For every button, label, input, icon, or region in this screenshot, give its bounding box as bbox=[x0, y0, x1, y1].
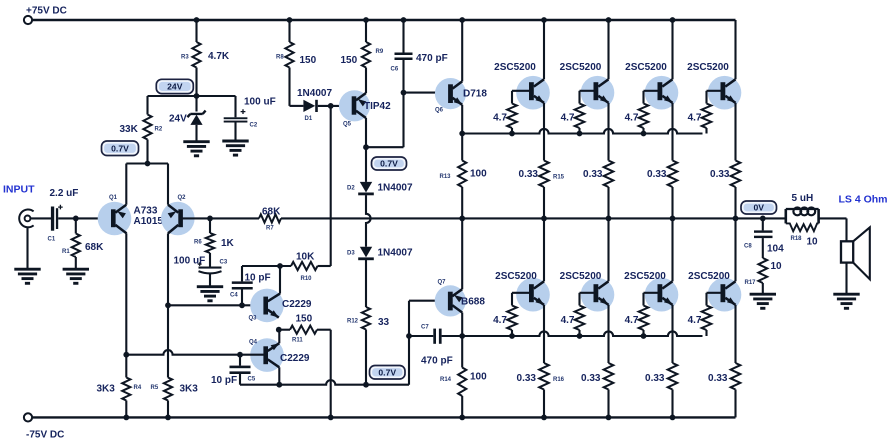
resistor R6 1K bbox=[209, 218, 211, 233]
svg-text:470 pF: 470 pF bbox=[416, 53, 448, 64]
ground below zener bbox=[183, 140, 209, 143]
resistor 4.7 base (lower bank cell 4) bbox=[705, 293, 707, 306]
junction Q3 Q4 emitters bbox=[276, 327, 282, 333]
svg-text:3K3: 3K3 bbox=[180, 384, 199, 395]
svg-text:R18: R18 bbox=[791, 236, 803, 242]
wire emitter drop + resistor 0.33 (upper cell 1) bbox=[543, 103, 545, 161]
wire Q5 collector to C6 branch bbox=[366, 146, 404, 148]
resistor R7 68K feedback bbox=[210, 217, 259, 219]
wire Q7 collector down to bus bbox=[461, 313, 463, 337]
wire collector Q_bot2 up to output line bbox=[607, 218, 609, 281]
capacitor C3 100 uF electrolytic bbox=[199, 267, 222, 269]
svg-text:Q4: Q4 bbox=[249, 340, 258, 346]
resistor R17 10 bbox=[758, 258, 767, 283]
resistor R3 4.7K bbox=[195, 20, 197, 42]
svg-text:24V: 24V bbox=[167, 82, 183, 92]
svg-text:100 uF: 100 uF bbox=[244, 97, 276, 108]
wire collector Q_bot4 up to output line bbox=[734, 218, 736, 281]
svg-text:1N4007: 1N4007 bbox=[378, 248, 413, 259]
wire collector Q_bot3 up to output line bbox=[671, 218, 673, 281]
terminal -75V DC bbox=[24, 413, 32, 421]
top +75V supply rail bbox=[33, 19, 736, 21]
svg-text:R1: R1 bbox=[62, 249, 70, 255]
ground below C3 bbox=[197, 285, 223, 288]
svg-text:68K: 68K bbox=[85, 242, 104, 253]
svg-text:2SC5200: 2SC5200 bbox=[625, 62, 667, 73]
junction lower cell 3 on -75V rail bbox=[670, 415, 676, 421]
svg-text:1N4007: 1N4007 bbox=[378, 183, 413, 194]
pill 0.7V bottom bbox=[370, 366, 406, 380]
wire Q2 emitter up bbox=[167, 164, 169, 205]
junction C7 left node bbox=[406, 333, 412, 339]
wire collector Q_bot1 up to output line bbox=[543, 218, 545, 281]
junction R5 on -75V rail bbox=[165, 415, 171, 421]
junction 4.7 on upper bus cell 1 bbox=[509, 131, 515, 137]
resistor 4.7 base (lower bank cell 1) bbox=[511, 293, 513, 306]
svg-text:C2229: C2229 bbox=[282, 299, 312, 310]
junction R1 tap bbox=[73, 216, 79, 222]
junction R12 bottom on node bbox=[363, 382, 369, 388]
resistor R8 150 bbox=[287, 17, 293, 23]
pill 0V bbox=[741, 201, 777, 214]
wire Q3 collector up to R10 node bbox=[279, 266, 281, 294]
wire emitter drop + resistor 0.33 (upper cell 3) bbox=[671, 103, 673, 161]
wire upper driver bus (hops emitter drops) bbox=[462, 129, 702, 134]
wire output line (R7 to inductor) bbox=[281, 217, 786, 219]
svg-text:100: 100 bbox=[470, 169, 487, 180]
wire lower driver bus (hops emitter drops) bbox=[462, 331, 702, 336]
svg-text:R17: R17 bbox=[745, 280, 757, 286]
junction R14 on -75V rail bbox=[459, 415, 465, 421]
svg-text:1K: 1K bbox=[221, 238, 235, 249]
resistor R14 100 bbox=[461, 336, 463, 368]
svg-text:33K: 33K bbox=[120, 124, 139, 135]
resistor 4.7 base (lower bank cell 3) bbox=[642, 293, 644, 306]
svg-text:Q1: Q1 bbox=[109, 195, 118, 201]
junction 24V node bbox=[194, 93, 200, 99]
svg-text:10K: 10K bbox=[296, 252, 315, 263]
svg-text:2SC5200: 2SC5200 bbox=[560, 271, 602, 282]
svg-text:0.7V: 0.7V bbox=[380, 159, 398, 169]
svg-text:0.33: 0.33 bbox=[583, 169, 603, 180]
svg-text:R12: R12 bbox=[347, 319, 359, 325]
svg-text:2.2 uF: 2.2 uF bbox=[50, 188, 79, 199]
junction upper cell 3 on output line bbox=[670, 216, 676, 222]
svg-text:68K: 68K bbox=[262, 207, 281, 218]
wire inductor to speaker bbox=[819, 217, 847, 219]
junction lower cell 2 on -75V rail bbox=[606, 415, 612, 421]
svg-text:0.33: 0.33 bbox=[708, 373, 728, 384]
ground below speaker bbox=[833, 293, 859, 296]
resistor R13 100 bbox=[461, 134, 463, 161]
wire collector Q_top4 to +75V rail bbox=[734, 20, 736, 79]
wire differential pair emitter bus bbox=[126, 162, 168, 164]
junction C5 tap bbox=[237, 352, 243, 358]
junction collector Q_top3 on rail bbox=[670, 17, 676, 23]
junction 4.7 on lower bus cell 3 bbox=[641, 333, 647, 339]
wire Q1 collector down to R4 bbox=[125, 233, 127, 377]
svg-text:R9: R9 bbox=[376, 49, 384, 55]
wire Q6 emitter to bus bbox=[461, 105, 463, 134]
svg-text:0.7V: 0.7V bbox=[378, 367, 396, 377]
junction Q4 collector on node bbox=[276, 382, 282, 388]
svg-text:2SC5200: 2SC5200 bbox=[495, 271, 537, 282]
svg-text:D1: D1 bbox=[305, 116, 313, 122]
junction 4.7 on lower bus cell 2 bbox=[577, 333, 583, 339]
svg-text:Q3: Q3 bbox=[249, 316, 258, 322]
wire Q4 collector down bbox=[278, 367, 280, 384]
wire emitters to R11 bbox=[279, 329, 290, 331]
junction output to C8 filter bbox=[760, 216, 766, 222]
capacitor C5 10 pF bbox=[239, 355, 241, 366]
resistor R2 33K bbox=[146, 96, 148, 115]
transistor Q_bot1 2SC5200 (NPN output, lower bank) bbox=[516, 278, 550, 312]
svg-text:R14: R14 bbox=[440, 377, 452, 383]
junction R2 to emitters bbox=[145, 161, 151, 167]
resistor 4.7 base (upper bank cell 3) bbox=[642, 91, 644, 104]
svg-text:Q7: Q7 bbox=[438, 280, 447, 286]
capacitor C2 100 uF bbox=[234, 96, 236, 117]
svg-text:R8: R8 bbox=[276, 55, 284, 61]
svg-text:10: 10 bbox=[771, 261, 783, 272]
wire emitter drop + resistor 0.33 (lower cell 3) bbox=[671, 305, 673, 363]
pill 0.7V center bbox=[372, 157, 407, 170]
wire R10 to D1 junction vertical bbox=[318, 265, 331, 267]
svg-text:C8: C8 bbox=[744, 244, 752, 250]
resistor 4.7 base (upper bank cell 1) bbox=[511, 91, 513, 104]
svg-text:C2: C2 bbox=[250, 123, 258, 129]
capacitor C8 104 bbox=[762, 218, 764, 230]
wire input to C1 bbox=[31, 217, 51, 219]
svg-text:Q6: Q6 bbox=[435, 108, 444, 114]
wire speaker to ground bbox=[845, 263, 847, 293]
wire emitter drop + resistor 0.33 (lower cell 2) bbox=[607, 305, 609, 363]
diode D1 1N4007 bbox=[290, 105, 304, 107]
svg-text:LS 4 Ohm: LS 4 Ohm bbox=[839, 194, 888, 206]
wire Q2 base node bbox=[182, 217, 210, 219]
resistor R12 33 bbox=[365, 260, 367, 307]
junction upper cell 1 on output line bbox=[541, 216, 547, 222]
wire R10 node bbox=[242, 265, 291, 267]
wire VAS lower node (hops R11 drop) bbox=[240, 380, 409, 385]
svg-text:4.7: 4.7 bbox=[493, 113, 507, 124]
svg-text:470 pF: 470 pF bbox=[421, 356, 453, 367]
svg-text:C6: C6 bbox=[391, 67, 399, 73]
wire C1 to Q1 base bbox=[58, 217, 111, 219]
svg-text:0.33: 0.33 bbox=[581, 373, 601, 384]
svg-text:0.33: 0.33 bbox=[519, 169, 539, 180]
junction R11 branch on -75V rail bbox=[328, 415, 334, 421]
resistor R11 150 bbox=[290, 326, 317, 334]
svg-text:Q2: Q2 bbox=[178, 195, 187, 201]
junction Q6 emitter bus bbox=[459, 131, 465, 137]
svg-text:104: 104 bbox=[767, 244, 784, 255]
wire Q1 emitter up bbox=[125, 164, 127, 205]
junction Q5 collector node bbox=[363, 144, 369, 150]
ground below R17 bbox=[750, 293, 776, 296]
svg-text:0.7V: 0.7V bbox=[111, 143, 129, 153]
svg-text:4.7: 4.7 bbox=[625, 113, 639, 124]
wire Q5 collector down bbox=[365, 118, 367, 147]
svg-text:0.33: 0.33 bbox=[517, 373, 537, 384]
wire Q6 collector to +75V rail bbox=[461, 20, 463, 81]
resistor R4 3K3 bbox=[122, 378, 130, 401]
svg-text:4.7: 4.7 bbox=[688, 113, 702, 124]
svg-text:D3: D3 bbox=[347, 251, 355, 257]
transistor Q7 B688 (PNP driver) bbox=[435, 285, 466, 316]
wire Q4 emitter up to junction bbox=[278, 330, 280, 344]
junction 4.7 on upper bus cell 2 bbox=[577, 131, 583, 137]
svg-text:2SC5200: 2SC5200 bbox=[494, 62, 536, 73]
svg-text:150: 150 bbox=[300, 55, 317, 66]
zener diode 24V bbox=[195, 96, 197, 112]
junction lower cell 1 on -75V rail bbox=[541, 415, 547, 421]
speaker LS 4 Ohm bbox=[841, 241, 853, 262]
wire Q2 collector down to R5 bbox=[167, 233, 169, 377]
ground below C2 bbox=[222, 140, 248, 143]
junction C4 tap on Q3 base wire bbox=[239, 302, 245, 308]
junction Q2 base / feedback bbox=[207, 216, 213, 222]
ground below R1 bbox=[63, 268, 89, 271]
wire collector Q_top1 to +75V rail bbox=[543, 20, 545, 79]
svg-text:C3: C3 bbox=[220, 260, 228, 266]
capacitor C4 10 pF bbox=[241, 266, 243, 281]
svg-text:4.7: 4.7 bbox=[561, 315, 575, 326]
svg-text:2SC5200: 2SC5200 bbox=[560, 62, 602, 73]
transistor Q_top4 2SC5200 (NPN output, upper bank) bbox=[708, 76, 742, 110]
svg-text:150: 150 bbox=[296, 314, 313, 325]
svg-text:Q5: Q5 bbox=[343, 122, 352, 128]
transistor Q_bot4 2SC5200 (NPN output, lower bank) bbox=[708, 278, 742, 312]
junction Q3 collector R10 bbox=[277, 263, 283, 269]
junction collector Q_top2 on rail bbox=[606, 17, 612, 23]
svg-text:R5: R5 bbox=[151, 385, 159, 391]
pill 0.7V left bbox=[102, 141, 139, 156]
wire input shield down bbox=[26, 227, 28, 268]
svg-text:C1: C1 bbox=[48, 237, 56, 243]
resistor R1 68K bbox=[75, 218, 77, 233]
svg-text:R15: R15 bbox=[553, 175, 565, 181]
junction R4 on -75V rail bbox=[123, 415, 129, 421]
inductor L1 5 uH with R18 10 damping bbox=[784, 209, 787, 223]
junction upper cell 2 on output line bbox=[606, 216, 612, 222]
transistor Q_bot3 2SC5200 (NPN output, lower bank) bbox=[645, 278, 679, 312]
svg-text:R4: R4 bbox=[134, 385, 142, 391]
svg-text:R13: R13 bbox=[440, 174, 452, 180]
diode D3 1N4007 bbox=[360, 247, 372, 258]
junction 4.7 on lower bus cell 1 bbox=[509, 333, 515, 339]
resistor 4.7 base (upper bank cell 4) bbox=[705, 91, 707, 104]
wire D2 to D3 (hops output line) bbox=[366, 195, 371, 247]
junction upper cell 4 on output line bbox=[733, 216, 739, 222]
svg-text:4.7: 4.7 bbox=[561, 113, 575, 124]
svg-text:10 pF: 10 pF bbox=[245, 273, 271, 284]
svg-text:24V: 24V bbox=[169, 114, 187, 125]
svg-text:5 uH: 5 uH bbox=[792, 193, 814, 204]
junction Q7 collector bus bbox=[459, 333, 465, 339]
transistor Q4 C2229 (NPN) bbox=[250, 338, 284, 372]
wire Q6 base bbox=[404, 92, 449, 94]
resistor R9 150 bbox=[363, 17, 369, 23]
svg-text:4.7K: 4.7K bbox=[208, 51, 230, 62]
transistor Q2 A1015 (PNP) bbox=[161, 202, 195, 236]
svg-text:2SC5200: 2SC5200 bbox=[688, 271, 730, 282]
svg-text:0V: 0V bbox=[753, 203, 764, 213]
svg-text:0.33: 0.33 bbox=[647, 169, 667, 180]
svg-text:150: 150 bbox=[341, 55, 358, 66]
transistor Q5 TIP42 (PNP) bbox=[339, 90, 370, 121]
junction Q6 collector on rail bbox=[459, 17, 465, 23]
svg-text:100: 100 bbox=[470, 372, 487, 383]
svg-text:-75V DC: -75V DC bbox=[26, 430, 64, 441]
wire collector Q_top2 to +75V rail bbox=[607, 20, 609, 79]
wire node up to Q7 base bbox=[408, 301, 410, 385]
svg-text:0.33: 0.33 bbox=[710, 169, 730, 180]
svg-text:C4: C4 bbox=[230, 293, 238, 299]
svg-text:R2: R2 bbox=[155, 127, 163, 133]
transistor Q_top3 2SC5200 (NPN output, upper bank) bbox=[645, 76, 679, 110]
resistor R10 10K bbox=[291, 262, 318, 270]
junction Q2 collector to Q3 base wire bbox=[165, 302, 171, 308]
svg-text:4.7: 4.7 bbox=[688, 315, 702, 326]
wire emitter drop + resistor 0.33 (lower cell 4) bbox=[734, 305, 736, 363]
svg-text:INPUT: INPUT bbox=[3, 184, 35, 196]
transistor Q1 A733 (PNP) bbox=[98, 202, 132, 236]
svg-text:2SC5200: 2SC5200 bbox=[624, 271, 666, 282]
junction Q1 collector to Q4 base wire bbox=[123, 352, 129, 358]
diode D2 1N4007 bbox=[365, 147, 367, 182]
wire Q4 base from Q1 collector (hops R5 line) bbox=[126, 350, 263, 355]
resistor R5 3K3 bbox=[164, 378, 172, 401]
transistor Q_bot2 2SC5200 (NPN output, lower bank) bbox=[581, 278, 615, 312]
svg-text:1N4007: 1N4007 bbox=[297, 88, 332, 99]
wire emitter drop + resistor 0.33 (lower cell 1) bbox=[543, 305, 545, 363]
junction C6 to Q6 base bbox=[401, 90, 407, 96]
svg-text:R11: R11 bbox=[292, 338, 303, 344]
wire collector Q_top3 to +75V rail bbox=[671, 20, 673, 79]
svg-text:10 pF: 10 pF bbox=[211, 375, 237, 386]
svg-text:C5: C5 bbox=[248, 377, 256, 383]
svg-text:B688: B688 bbox=[461, 297, 485, 308]
bottom -75V supply rail bbox=[32, 416, 736, 418]
wire Q7 base bbox=[409, 300, 448, 302]
svg-text:4.7: 4.7 bbox=[493, 315, 507, 326]
terminal +75V DC bbox=[24, 16, 32, 24]
svg-text:D2: D2 bbox=[347, 186, 355, 192]
junction on top rail at R3 bbox=[194, 17, 200, 23]
pill 24V bbox=[156, 79, 193, 93]
input RCA connector bbox=[19, 209, 33, 227]
capacitor C6 470 pF bbox=[401, 17, 407, 23]
junction D1 cathode to bias chain bbox=[328, 103, 334, 109]
svg-text:R6: R6 bbox=[194, 240, 202, 246]
svg-text:D718: D718 bbox=[463, 88, 487, 99]
resistor 4.7 base (upper bank cell 2) bbox=[578, 91, 580, 104]
svg-text:100 uF: 100 uF bbox=[174, 256, 206, 267]
svg-text:0.33: 0.33 bbox=[645, 373, 665, 384]
junction collector Q_top1 on rail bbox=[541, 17, 547, 23]
svg-text:R7: R7 bbox=[266, 226, 274, 232]
node 24V wire bbox=[148, 95, 236, 97]
svg-text:R10: R10 bbox=[301, 276, 313, 282]
svg-text:R3: R3 bbox=[181, 55, 189, 61]
wire emitter drop + resistor 0.33 (upper cell 2) bbox=[607, 103, 609, 161]
svg-text:C7: C7 bbox=[421, 325, 429, 331]
wire Q7 emitter up to output node bbox=[461, 218, 463, 289]
wire Q3 base from Q2 collector bbox=[168, 304, 264, 306]
junction output node center bbox=[459, 216, 465, 222]
svg-text:+75V DC: +75V DC bbox=[26, 6, 67, 17]
svg-text:33: 33 bbox=[378, 317, 390, 328]
svg-text:TIP42: TIP42 bbox=[364, 101, 391, 112]
svg-text:2SC5200: 2SC5200 bbox=[687, 62, 729, 73]
transistor Q6 D718 (NPN driver) bbox=[435, 78, 466, 109]
wire R11 to -75V rail bbox=[317, 329, 331, 331]
resistor 4.7 base (lower bank cell 2) bbox=[578, 293, 580, 306]
transistor Q_top1 2SC5200 (NPN output, upper bank) bbox=[516, 76, 550, 110]
svg-text:3K3: 3K3 bbox=[97, 384, 116, 395]
svg-text:10: 10 bbox=[807, 237, 819, 248]
transistor Q3 C2229 (NPN) bbox=[250, 289, 284, 323]
capacitor C7 470 pF bbox=[409, 335, 433, 337]
svg-text:C2229: C2229 bbox=[280, 353, 310, 364]
junction 4.7 on upper bus cell 3 bbox=[641, 131, 647, 137]
svg-text:4.7: 4.7 bbox=[625, 315, 639, 326]
capacitor C1 2.2 uF bbox=[51, 207, 54, 231]
wire emitter drop + resistor 0.33 (upper cell 4) bbox=[734, 103, 736, 161]
ground input bbox=[14, 268, 40, 271]
transistor Q_top2 2SC5200 (NPN output, upper bank) bbox=[581, 76, 615, 110]
rail corner to last collector bbox=[734, 19, 736, 22]
svg-text:R16: R16 bbox=[553, 377, 565, 383]
svg-text:A1015: A1015 bbox=[134, 216, 164, 227]
